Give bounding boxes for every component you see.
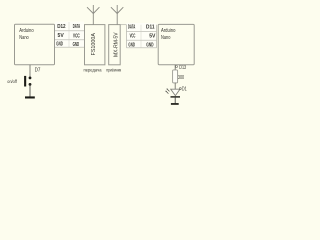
svg-text:300: 300 xyxy=(178,75,184,81)
LED D1 xyxy=(166,89,181,98)
svg-text:D7: D7 xyxy=(35,68,41,74)
pin circle D1 xyxy=(179,88,181,90)
ground xyxy=(171,103,179,105)
svg-text:DATA: DATA xyxy=(128,24,135,30)
arduino U1 (left Arduino Nano) xyxy=(15,24,55,65)
svg-text:on/off: on/off xyxy=(7,79,17,84)
switch S1 xyxy=(24,76,31,87)
wire (switch to ground) xyxy=(29,84,31,96)
connector J1 (left pin table) xyxy=(55,22,85,48)
svg-text:D1: D1 xyxy=(182,87,187,93)
svg-text:передача: передача xyxy=(84,67,102,72)
svg-text:Arduino: Arduino xyxy=(161,28,176,34)
module U3 (MX-RM-5V receiver) xyxy=(109,25,121,65)
ground xyxy=(25,96,35,98)
wire (MX to right connector) xyxy=(120,24,126,26)
svg-text:GND: GND xyxy=(146,42,153,48)
svg-text:5V: 5V xyxy=(58,33,64,39)
svg-text:GND: GND xyxy=(128,42,135,48)
svg-text:GND: GND xyxy=(56,42,63,48)
svg-text:MX-RM-5V: MX-RM-5V xyxy=(113,32,119,57)
module U2 (FS1000A transmitter) xyxy=(85,25,105,65)
svg-text:Arduino: Arduino xyxy=(19,28,34,34)
svg-text:D12: D12 xyxy=(57,24,65,30)
svg-text:DATA: DATA xyxy=(73,24,80,30)
svg-text:приёмник: приёмник xyxy=(106,67,121,72)
resistor R1 xyxy=(173,70,178,83)
antenna AN1 xyxy=(87,5,99,25)
wire (LED to ground) xyxy=(174,98,176,104)
wire (D7 from left Arduino) xyxy=(29,65,31,78)
svg-text:GND: GND xyxy=(73,42,80,48)
pin circle D13 xyxy=(176,66,178,68)
svg-text:Nano: Nano xyxy=(19,35,29,41)
svg-text:FS1000A: FS1000A xyxy=(91,33,97,56)
svg-text:D13: D13 xyxy=(179,65,186,71)
svg-text:D11: D11 xyxy=(146,25,155,31)
wire (D13 from right Arduino) xyxy=(174,65,176,70)
svg-text:VCC: VCC xyxy=(130,34,136,40)
wire (resistor to LED) xyxy=(174,83,176,90)
svg-text:5V: 5V xyxy=(149,34,155,40)
svg-text:Nano: Nano xyxy=(161,35,171,41)
arduino U4 (right Arduino Nano) xyxy=(158,24,194,64)
connector J2 (right pin table) xyxy=(127,23,157,48)
svg-text:VCC: VCC xyxy=(73,34,80,40)
antenna AN2 xyxy=(111,5,123,25)
